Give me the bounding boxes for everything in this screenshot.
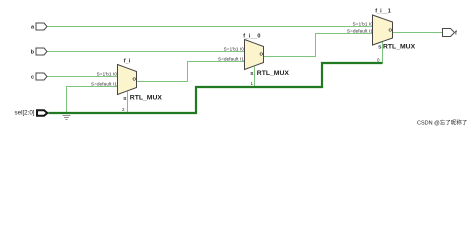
wire mux f_i__1 O to port f — [393, 32, 443, 34]
svg-text:RTL_MUX: RTL_MUX — [130, 95, 163, 102]
wire mux f_i__1 S to sel bus — [382, 42, 384, 64]
svg-text:S=default I1: S=default I1 — [91, 81, 117, 86]
svg-text:c: c — [31, 75, 34, 81]
svg-text:RTL_MUX: RTL_MUX — [383, 43, 416, 50]
svg-text:S=default I1: S=default I1 — [347, 28, 373, 33]
svg-text:O: O — [388, 28, 392, 33]
svg-text:RTL_MUX: RTL_MUX — [257, 70, 290, 77]
svg-text:f: f — [455, 31, 457, 37]
svg-text:O: O — [132, 77, 136, 82]
wire mux f_i O to mux f_i__0 I1 — [137, 62, 245, 82]
wire c to mux f_i I0 — [48, 76, 118, 78]
svg-text:S=1'b1 I0: S=1'b1 I0 — [97, 71, 118, 76]
output port f — [443, 29, 458, 37]
input bus port sel[2:0] — [15, 110, 48, 117]
svg-text:f_i__1: f_i__1 — [375, 9, 391, 15]
wire mux f_i__0 O to mux f_i__1 I1 — [264, 34, 373, 57]
svg-text:S=1'b1 I0: S=1'b1 I0 — [353, 21, 374, 26]
bus sel[2:0] — [49, 63, 383, 113]
svg-text:f_i__0: f_i__0 — [243, 34, 260, 40]
svg-text:CSDN @忘了昵称了: CSDN @忘了昵称了 — [417, 119, 467, 127]
wire mux f_i__0 S to sel bus — [254, 67, 256, 88]
wire a to mux f_i__1 I0 — [48, 26, 373, 28]
mux U1 f_i — [91, 59, 162, 102]
wire b to mux f_i__0 I0 — [48, 51, 245, 53]
mux U3 f_i__1 — [347, 9, 416, 51]
wire bus tap to mux f_i I1 — [67, 87, 118, 114]
mux U2 f_i__0 — [218, 34, 289, 78]
svg-text:sel[2:0]: sel[2:0] — [15, 110, 35, 117]
wire mux f_i S to sel bus — [127, 92, 129, 114]
svg-text:S=default I1: S=default I1 — [218, 56, 244, 61]
bus tap symbol below sel bus — [63, 116, 71, 120]
input port c — [31, 73, 47, 81]
input port b — [31, 48, 47, 56]
input port a — [31, 23, 47, 31]
svg-text:f_i: f_i — [124, 59, 131, 65]
svg-text:O: O — [259, 52, 263, 57]
svg-text:S=1'b1 I0: S=1'b1 I0 — [224, 46, 245, 51]
